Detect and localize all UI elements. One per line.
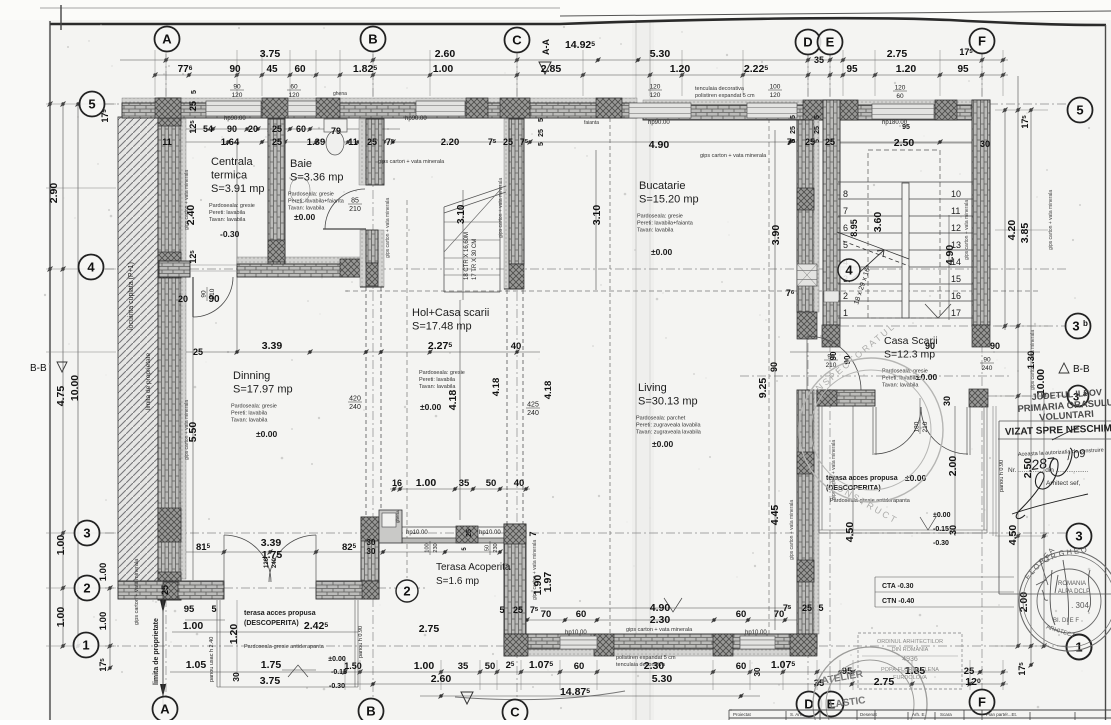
- dimension lines right: [1004, 110, 1006, 330]
- svg-text:6: 6: [843, 223, 848, 233]
- top exterior wall (left of fold): [122, 98, 637, 103]
- svg-text:35: 35: [459, 478, 470, 489]
- svg-text:ALPA DCLP: ALPA DCLP: [1058, 589, 1090, 595]
- top wall core left: [122, 103, 637, 118]
- svg-text:25: 25: [466, 529, 473, 537]
- sink baie: [290, 177, 310, 203]
- room living: [636, 382, 702, 449]
- E wall core: [823, 100, 840, 325]
- grid bubble D top: [796, 30, 821, 55]
- svg-text:425: 425: [527, 402, 539, 409]
- svg-text:11: 11: [348, 137, 358, 147]
- svg-text:40: 40: [514, 478, 525, 489]
- wall under centrala/baie: [237, 257, 365, 264]
- svg-text:hp90.00: hp90.00: [224, 116, 246, 122]
- svg-text:S=30.13 mp: S=30.13 mp: [638, 396, 698, 408]
- svg-text:1.05: 1.05: [186, 659, 207, 671]
- svg-text:S=1.6 mp: S=1.6 mp: [436, 576, 480, 587]
- CTA/CTN box: [875, 577, 1014, 607]
- stair step numbers: [843, 189, 961, 318]
- door casa scarii: [807, 336, 861, 390]
- property line: [162, 600, 164, 712]
- front terrace panels: [217, 600, 220, 687]
- grid bubble 2 inner: [396, 580, 418, 602]
- svg-text:1.00: 1.00: [433, 63, 454, 75]
- svg-text:Bucatarie: Bucatarie: [639, 180, 685, 192]
- svg-text:BI. DI E F: BI. DI E F: [1053, 618, 1079, 624]
- svg-text:-0.30: -0.30: [933, 540, 949, 547]
- section B-B marker right: [1059, 363, 1069, 373]
- svg-text:4.18: 4.18: [447, 390, 459, 411]
- grid bubble F bottom: [970, 690, 995, 715]
- double door living->terasa spate: [874, 407, 921, 454]
- svg-text:±0.00: ±0.00: [328, 656, 346, 663]
- svg-text:25: 25: [825, 137, 835, 147]
- axis E line: [829, 54, 831, 697]
- svg-text:3: 3: [1075, 529, 1082, 544]
- svg-text:Scara: Scara: [940, 712, 952, 717]
- D wall core lower: [797, 390, 814, 634]
- svg-text:60: 60: [736, 661, 747, 672]
- window hol: [416, 101, 465, 116]
- svg-text:25: 25: [790, 126, 797, 134]
- svg-text:90: 90: [983, 357, 991, 364]
- svg-text:1.50: 1.50: [344, 661, 362, 671]
- axis 3b line: [840, 325, 1068, 327]
- svg-text:2.40: 2.40: [185, 205, 197, 226]
- svg-text:Pardoseala: gresie: Pardoseala: gresie: [231, 404, 277, 410]
- hp labels: [224, 116, 908, 636]
- window bottom 60 b: [740, 636, 775, 649]
- architect round stamp: [1019, 551, 1111, 651]
- svg-text:20: 20: [248, 124, 258, 134]
- svg-text:2.60: 2.60: [435, 48, 456, 60]
- room terasa acoperita: [436, 562, 511, 587]
- baie jog wall lower: [360, 230, 366, 287]
- svg-text:30: 30: [980, 139, 990, 149]
- svg-text:Living: Living: [638, 382, 667, 394]
- svg-text:hp10.00: hp10.00: [479, 530, 501, 536]
- svg-text:Pereti: lavabila+faianta: Pereti: lavabila+faianta: [288, 199, 345, 205]
- svg-text:Pereti: lavabila: Pereti: lavabila: [882, 376, 919, 382]
- grid bubble 3 right: [1067, 524, 1092, 549]
- svg-text:30: 30: [367, 547, 376, 556]
- room dinning: [231, 370, 293, 439]
- svg-text:-0.30: -0.30: [220, 229, 240, 239]
- svg-text:5: 5: [818, 603, 823, 613]
- svg-text:gips carton + vata minerala: gips carton + vata minerala: [700, 153, 767, 159]
- wall centrala-baie bottom: [237, 264, 365, 277]
- stair opening dashed: [868, 150, 940, 318]
- top wall core right: [643, 105, 990, 120]
- svg-text:8.95: 8.95: [849, 219, 859, 237]
- jog wall core: [366, 230, 378, 263]
- svg-text:-0.15: -0.15: [933, 526, 949, 533]
- svg-text:5.30: 5.30: [650, 48, 671, 60]
- svg-text:4: 4: [87, 260, 95, 275]
- svg-text:25: 25: [193, 347, 203, 357]
- svg-text:Hol+Casa scarii: Hol+Casa scarii: [412, 307, 489, 319]
- svg-text:E: E: [826, 35, 835, 50]
- svg-text:85: 85: [351, 198, 359, 205]
- svg-text:3.39: 3.39: [262, 340, 283, 352]
- window bucatarie 2: [747, 103, 797, 118]
- svg-text:±0.00: ±0.00: [652, 439, 673, 449]
- axis 2 line: [105, 587, 425, 589]
- atelier round stamp: [813, 647, 927, 725]
- svg-text:12: 12: [951, 223, 961, 233]
- svg-text:17 TR X 30 CM: 17 TR X 30 CM: [472, 239, 478, 280]
- svg-text:gips carton + vata minerala: gips carton + vata minerala: [626, 627, 693, 633]
- window casa scarii hp180.00: [872, 104, 934, 119]
- svg-text:8: 8: [843, 189, 848, 199]
- grid bubble F top: [970, 29, 995, 54]
- svg-text:60: 60: [574, 661, 585, 672]
- svg-text:4.90: 4.90: [649, 139, 670, 151]
- svg-text:Dinning: Dinning: [233, 370, 270, 382]
- svg-text:S=15.20 mp: S=15.20 mp: [639, 194, 699, 206]
- door centrala->dinning: [192, 277, 194, 317]
- svg-text:5: 5: [814, 139, 821, 143]
- svg-text:3: 3: [83, 526, 90, 541]
- terasa acces propusa front: [244, 610, 316, 627]
- svg-text:54: 54: [203, 124, 213, 134]
- svg-text:20: 20: [178, 294, 188, 304]
- svg-text:hp90.00: hp90.00: [648, 120, 670, 126]
- ordinul arhitectilor stamp: [858, 633, 962, 689]
- svg-text:25: 25: [367, 137, 377, 147]
- svg-text:11: 11: [162, 137, 172, 147]
- svg-text:Pardoseala: gresie: Pardoseala: gresie: [419, 370, 465, 376]
- axis 3 line: [105, 532, 1068, 534]
- grid bubble A top: [155, 27, 180, 52]
- svg-text:1.00: 1.00: [183, 620, 204, 632]
- svg-text:14.875: 14.875: [560, 686, 590, 698]
- svg-text:±0.00: ±0.00: [651, 247, 672, 257]
- svg-text:240: 240: [982, 365, 993, 372]
- svg-text:Pereti: lavabila: Pereti: lavabila: [419, 377, 456, 383]
- svg-text:35: 35: [814, 55, 824, 65]
- svg-text:45: 45: [266, 64, 278, 75]
- svg-text:Pardoseala: gresie: Pardoseala: gresie: [288, 192, 334, 198]
- signature scribble: [1016, 448, 1072, 519]
- svg-text:Baie: Baie: [290, 158, 312, 170]
- C wall upper core: [509, 119, 524, 264]
- svg-text:gips carton + vata minerala: gips carton + vata minerala: [134, 558, 140, 625]
- svg-text:120: 120: [770, 92, 781, 99]
- axis C line: [516, 54, 518, 697]
- svg-text:±0.00: ±0.00: [256, 429, 277, 439]
- projection lines to dims: [46, 50, 1048, 690]
- grid bubble 5 right: [1068, 98, 1093, 123]
- D wall core upper: [797, 120, 814, 312]
- svg-text:3.10: 3.10: [456, 204, 467, 224]
- svg-text:4.45: 4.45: [769, 505, 781, 526]
- svg-text:50: 50: [485, 661, 496, 672]
- svg-text:25: 25: [503, 137, 513, 147]
- svg-text:3.39: 3.39: [261, 537, 282, 549]
- hol stair diagram: [444, 185, 500, 292]
- svg-text:95: 95: [957, 64, 969, 75]
- svg-text:S=3.36 mp: S=3.36 mp: [290, 172, 344, 184]
- svg-text:90: 90: [233, 84, 241, 91]
- svg-text:limita de proprietate: limita de proprietate: [153, 618, 160, 685]
- svg-text:180: 180: [914, 421, 921, 432]
- svg-text:±0.00: ±0.00: [905, 473, 926, 483]
- svg-text:hp10.00: hp10.00: [565, 630, 587, 636]
- dimension tick marks: [48, 58, 1047, 699]
- svg-text:1.00: 1.00: [414, 660, 435, 672]
- svg-text:35: 35: [458, 661, 469, 672]
- dimension lines bottom: [340, 671, 1008, 673]
- svg-text:120: 120: [232, 92, 243, 99]
- wc toilet: [324, 119, 347, 132]
- grid bubble C top: [505, 28, 530, 53]
- ghena pier hol: [379, 510, 402, 543]
- axis B line: [372, 54, 374, 697]
- svg-text:C: C: [510, 705, 520, 720]
- svg-text:3.75: 3.75: [260, 48, 281, 60]
- svg-text:5: 5: [538, 118, 545, 122]
- svg-text:1.39: 1.39: [307, 137, 326, 148]
- svg-text:1: 1: [1075, 640, 1082, 655]
- living bottom chevron: [664, 598, 682, 612]
- faint stamp centrala: [0, 0, 1, 1]
- axis 4 line: [105, 268, 1068, 270]
- axis A line: [165, 54, 167, 697]
- svg-text:240: 240: [272, 557, 278, 568]
- svg-text:5: 5: [211, 604, 216, 614]
- door baie: [323, 228, 366, 230]
- svg-text:1.00: 1.00: [98, 612, 109, 631]
- svg-text:Pardoseala: gresie: Pardoseala: gresie: [209, 203, 255, 209]
- svg-text:termica: termica: [211, 170, 248, 182]
- svg-text:60: 60: [736, 609, 747, 620]
- svg-text:25: 25: [538, 129, 545, 137]
- svg-text:polistiren expandat 5 cm: polistiren expandat 5 cm: [695, 93, 755, 99]
- svg-text:1: 1: [82, 638, 89, 653]
- svg-text:5: 5: [191, 90, 198, 94]
- svg-text:120: 120: [650, 92, 661, 99]
- svg-text:1.20: 1.20: [228, 624, 240, 645]
- terrace level chevron: [920, 517, 936, 530]
- hidden wall over Dinning: [366, 287, 381, 517]
- svg-text:Pereti: lavabila: Pereti: lavabila: [209, 210, 246, 216]
- svg-text:1.97: 1.97: [542, 572, 554, 593]
- svg-text:95: 95: [902, 124, 910, 131]
- svg-text:POPA-FLOREA ELENA: POPA-FLOREA ELENA: [881, 667, 939, 673]
- svg-text:4.20: 4.20: [1006, 220, 1018, 241]
- svg-text:4.18: 4.18: [491, 378, 502, 397]
- axis 3a line: [988, 395, 1068, 397]
- svg-text:2.90: 2.90: [48, 183, 60, 204]
- svg-text:. 304: . 304: [1071, 601, 1089, 610]
- svg-text:126: 126: [264, 557, 270, 568]
- svg-text:2.30: 2.30: [650, 614, 671, 626]
- svg-text:2.20: 2.20: [441, 137, 460, 148]
- svg-text:2: 2: [843, 291, 848, 301]
- C-axis wall upper: [504, 119, 509, 289]
- svg-text:F: F: [978, 34, 986, 49]
- svg-text:230: 230: [433, 543, 439, 552]
- neighbour building hatched band (locuinta cuplata): [118, 117, 158, 581]
- property line arrows: [160, 600, 166, 697]
- window 60 baie: [288, 101, 316, 116]
- svg-text:ORDINUL ARHITECTILOR: ORDINUL ARHITECTILOR: [877, 639, 943, 645]
- svg-text:1.00: 1.00: [55, 535, 67, 556]
- svg-text:(DESCOPERITA): (DESCOPERITA): [244, 620, 299, 627]
- bottom wall core: [504, 634, 817, 649]
- svg-text:Pardoseala-gresie antiderapant: Pardoseala-gresie antiderapanta: [244, 644, 325, 650]
- window D wall kitchen: [797, 264, 817, 286]
- svg-text:50: 50: [485, 545, 491, 551]
- B wall lower: [361, 517, 379, 599]
- svg-text:hp10.00: hp10.00: [745, 630, 767, 636]
- bottom exterior wall: [504, 649, 817, 656]
- svg-text:S=17.48 mp: S=17.48 mp: [412, 321, 472, 333]
- svg-text:25: 25: [513, 605, 523, 615]
- svg-text:2.75: 2.75: [419, 623, 440, 635]
- svg-text:D: D: [803, 35, 812, 50]
- svg-text:±0.00: ±0.00: [933, 512, 951, 519]
- svg-text:100: 100: [770, 84, 781, 91]
- svg-text:5: 5: [843, 240, 848, 250]
- grid bubble 2 left: [75, 576, 100, 601]
- svg-text:1.00: 1.00: [55, 607, 67, 628]
- svg-text:90: 90: [769, 362, 779, 372]
- svg-text:A: A: [162, 32, 172, 47]
- svg-text:S=3.91 mp: S=3.91 mp: [211, 183, 265, 195]
- svg-text:Centrala: Centrala: [211, 156, 253, 168]
- grid bubble E bottom: [819, 692, 844, 717]
- svg-text:1.20: 1.20: [670, 63, 691, 75]
- svg-text:Tavan: lavabila: Tavan: lavabila: [288, 206, 325, 212]
- svg-text:25: 25: [272, 137, 282, 147]
- room casa scarii: [882, 335, 938, 389]
- svg-text:25: 25: [272, 124, 282, 134]
- grid bubble 3 left: [75, 521, 100, 546]
- svg-text:A-A: A-A: [541, 39, 551, 55]
- double door dinning->terasa: [224, 535, 271, 582]
- svg-text:Pardoseala: parchet: Pardoseala: parchet: [636, 416, 686, 422]
- svg-text:4.90: 4.90: [944, 245, 956, 266]
- window bottom 60 a: [560, 636, 597, 649]
- svg-text:16: 16: [392, 478, 402, 488]
- svg-text:5: 5: [499, 605, 504, 615]
- svg-text:16: 16: [951, 291, 961, 301]
- svg-text:panou h 0.90: panou h 0.90: [999, 460, 1005, 492]
- svg-text:5: 5: [814, 115, 821, 119]
- svg-text:Pereti: lavabila+faianta: Pereti: lavabila+faianta: [637, 221, 694, 227]
- svg-text:25: 25: [814, 126, 821, 134]
- axis x line: [740, 375, 1010, 377]
- svg-text:30: 30: [753, 667, 762, 676]
- svg-text:90: 90: [229, 64, 241, 75]
- faint stamp on terrace: [799, 358, 943, 502]
- grid bubble 4 left: [79, 255, 104, 280]
- svg-text:40: 40: [511, 341, 522, 352]
- svg-text:210: 210: [209, 288, 216, 299]
- staircase treads: [838, 182, 973, 318]
- svg-text:3.85: 3.85: [1019, 223, 1031, 244]
- svg-text:3.75: 3.75: [260, 675, 281, 687]
- svg-text:1.20: 1.20: [896, 63, 917, 75]
- svg-text:60: 60: [296, 124, 306, 134]
- svg-text:10.00: 10.00: [69, 375, 81, 401]
- svg-text:S. Arh.: S. Arh.: [790, 712, 804, 717]
- svg-text:hp10.00: hp10.00: [406, 530, 428, 536]
- svg-text:3.10: 3.10: [591, 205, 603, 226]
- svg-text:60: 60: [896, 93, 904, 100]
- svg-text:25: 25: [188, 101, 198, 111]
- section A-A marker bottom: [461, 692, 473, 704]
- svg-text:Tavan: lavabila: Tavan: lavabila: [209, 217, 246, 223]
- svg-text:panou usac h 2.40: panou usac h 2.40: [209, 637, 215, 682]
- svg-text:F: F: [978, 695, 986, 710]
- svg-text:90: 90: [227, 124, 237, 134]
- svg-text:5.50: 5.50: [187, 422, 199, 443]
- svg-text:1.30: 1.30: [1026, 351, 1037, 370]
- svg-text:240: 240: [527, 410, 539, 417]
- svg-text:1.00: 1.00: [416, 477, 437, 489]
- svg-text:420: 420: [349, 396, 361, 403]
- svg-text:gips carton + vata minerala: gips carton + vata minerala: [1048, 190, 1054, 250]
- dimension lines top: [120, 59, 1008, 61]
- svg-text:Pereti: lavabila: Pereti: lavabila: [231, 411, 268, 417]
- svg-text:14.925: 14.925: [565, 39, 595, 51]
- svg-text:5: 5: [1076, 103, 1083, 118]
- grid bubble C bottom: [503, 700, 528, 725]
- axis 5 line: [105, 103, 1068, 105]
- svg-text:Pereti: zugraveala lavabila: Pereti: zugraveala lavabila: [636, 423, 701, 429]
- room hol+casa scarii: [412, 307, 489, 333]
- svg-text:25: 25: [160, 585, 170, 595]
- svg-text:Tavan: lavabila: Tavan: lavabila: [637, 228, 674, 234]
- svg-text:±0.00: ±0.00: [420, 402, 441, 412]
- C wall lower: [504, 524, 526, 656]
- svg-text:Pardoseala: gresie: Pardoseala: gresie: [637, 214, 683, 220]
- svg-text:100: 100: [425, 543, 431, 552]
- svg-text:5.30: 5.30: [652, 673, 673, 685]
- svg-text:17: 17: [951, 308, 961, 318]
- top exterior wall (right of fold): [643, 100, 990, 105]
- svg-text:7: 7: [528, 531, 538, 536]
- svg-text:B-B: B-B: [30, 363, 47, 374]
- grid bubble A bottom: [153, 697, 178, 722]
- terasa spate outline: [819, 406, 822, 533]
- primaria text block: [1016, 386, 1111, 425]
- svg-text:Plan parter...Et.: Plan parter...Et.: [986, 712, 1017, 717]
- svg-text:A: A: [160, 702, 170, 717]
- svg-text:2: 2: [83, 581, 90, 596]
- svg-text:ghena: ghena: [333, 91, 347, 97]
- scan top edge: [40, 7, 560, 9]
- section A-A marker top: [539, 62, 551, 74]
- hidden wall over Hol: [507, 290, 523, 524]
- svg-text:4.18: 4.18: [543, 381, 554, 400]
- svg-text:11: 11: [951, 206, 960, 216]
- svg-text:30: 30: [367, 538, 376, 547]
- svg-text:Tavan: lavabila: Tavan: lavabila: [231, 418, 268, 424]
- svg-text:4.75: 4.75: [55, 386, 67, 407]
- svg-text:CTN -0.40: CTN -0.40: [882, 598, 914, 605]
- stair middle stringer: [902, 183, 909, 318]
- svg-text:-0.30: -0.30: [329, 683, 345, 690]
- svg-text:1.75: 1.75: [261, 659, 282, 671]
- left exterior wall core: [158, 98, 181, 600]
- axis F line: [981, 54, 983, 697]
- svg-text:210: 210: [349, 206, 361, 213]
